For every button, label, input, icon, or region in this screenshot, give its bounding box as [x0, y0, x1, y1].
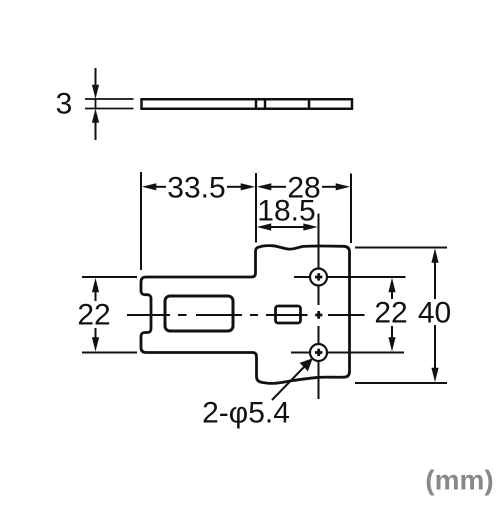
svg-text:(mm): (mm) — [425, 465, 493, 496]
svg-text:22: 22 — [374, 297, 407, 330]
svg-text:18.5: 18.5 — [257, 195, 315, 228]
svg-text:3: 3 — [56, 88, 73, 121]
svg-text:40: 40 — [418, 297, 451, 330]
svg-text:22: 22 — [77, 299, 110, 332]
svg-text:2-φ5.4: 2-φ5.4 — [202, 397, 290, 430]
svg-text:33.5: 33.5 — [167, 172, 225, 205]
